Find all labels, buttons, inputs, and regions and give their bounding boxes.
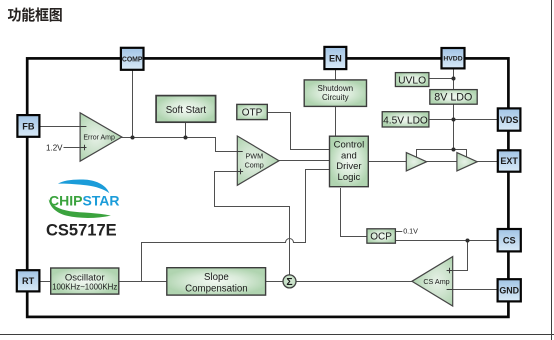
svg-text:COMP: COMP — [122, 56, 143, 63]
svg-text:Slope: Slope — [204, 272, 229, 283]
svg-text:UVLO: UVLO — [398, 75, 426, 86]
svg-text:RT: RT — [22, 276, 35, 286]
svg-text:Error Amp: Error Amp — [83, 135, 115, 142]
svg-text:100KHz~1000KHz: 100KHz~1000KHz — [52, 283, 117, 292]
svg-text:CS5717E: CS5717E — [46, 221, 117, 239]
svg-text:Driver: Driver — [336, 161, 361, 172]
svg-text:PWM: PWM — [246, 152, 264, 161]
svg-text:OCP: OCP — [370, 231, 392, 242]
svg-text:CHIPSTAR: CHIPSTAR — [49, 193, 120, 209]
svg-text:Soft Start: Soft Start — [166, 105, 207, 116]
svg-text:GND: GND — [499, 286, 519, 296]
svg-text:Shutdown: Shutdown — [318, 84, 354, 93]
svg-text:Circuity: Circuity — [322, 93, 349, 102]
svg-text:Logic: Logic — [338, 172, 361, 183]
svg-text:EN: EN — [329, 53, 342, 63]
svg-text:VDS: VDS — [500, 115, 519, 125]
svg-text:and: and — [341, 150, 357, 161]
svg-text:4.5V LDO: 4.5V LDO — [383, 115, 428, 126]
svg-text:8V LDO: 8V LDO — [434, 92, 472, 104]
svg-text:1.2V: 1.2V — [46, 143, 63, 152]
svg-text:0.1V: 0.1V — [403, 227, 418, 236]
svg-text:EXT: EXT — [500, 156, 518, 166]
svg-text:Control: Control — [334, 140, 365, 151]
svg-text:Comp: Comp — [245, 160, 264, 169]
svg-text:Σ: Σ — [286, 277, 292, 288]
svg-text:Compensation: Compensation — [185, 283, 247, 294]
svg-text:HVDD: HVDD — [443, 56, 462, 63]
svg-text:CS: CS — [503, 236, 516, 246]
svg-text:CS Amp: CS Amp — [423, 277, 449, 286]
svg-text:OTP: OTP — [242, 108, 263, 119]
svg-text:FB: FB — [22, 121, 35, 131]
